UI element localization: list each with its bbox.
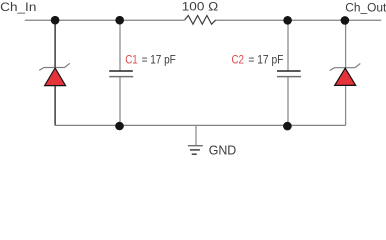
diode D2 zener bar xyxy=(330,64,361,71)
diode D1 triangle xyxy=(45,68,66,86)
resistor R1 100 Ohm xyxy=(185,16,216,25)
svg-text:= 17 pF: = 17 pF xyxy=(142,52,177,66)
wire C1 vertical top xyxy=(119,20,121,71)
junction dot bottom C2 xyxy=(283,122,292,131)
wire C2 vertical top xyxy=(287,20,289,71)
capacitor C2 plates xyxy=(277,71,301,77)
capacitor C1 plates xyxy=(109,71,133,77)
junction dot bottom C1 xyxy=(115,122,124,131)
svg-text:100 Ω: 100 Ω xyxy=(182,0,218,13)
svg-text:Ch_Out: Ch_Out xyxy=(345,0,386,14)
wire C1 vertical bottom xyxy=(119,77,121,126)
wire left diode vertical (dark) xyxy=(54,20,56,125)
diode D1 zener bar xyxy=(39,63,70,70)
ground bar 1 xyxy=(188,145,203,147)
wire top rail right segment xyxy=(216,19,382,21)
diode D2 triangle xyxy=(335,68,356,85)
svg-text:GND: GND xyxy=(209,144,237,158)
junction dot top C2 xyxy=(283,16,292,25)
junction dot top left diode xyxy=(51,16,60,25)
wire right diode vertical (gray) xyxy=(345,20,347,125)
ground stem xyxy=(195,125,197,145)
junction dot top C1 xyxy=(115,16,124,25)
wire bottom rail xyxy=(55,124,346,126)
junction dot top right diode xyxy=(341,16,350,25)
svg-text:Ch_In: Ch_In xyxy=(0,0,36,14)
svg-text:= 17 pF: = 17 pF xyxy=(248,52,283,66)
ground bar 3 xyxy=(192,153,197,155)
wire top rail left segment xyxy=(25,19,185,21)
ground bar 2 xyxy=(190,149,200,151)
svg-text:C2: C2 xyxy=(232,52,245,66)
svg-text:C1: C1 xyxy=(125,52,138,66)
wire C2 vertical bottom xyxy=(287,77,289,126)
